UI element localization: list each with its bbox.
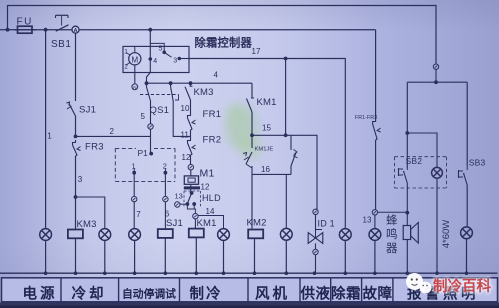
svg-text:4: 4 bbox=[214, 71, 219, 80]
node lighting split bbox=[434, 80, 438, 84]
pressure controller P1 box bbox=[115, 148, 175, 181]
svg-text:SB2: SB2 bbox=[406, 156, 423, 166]
wire cooling branch bbox=[76, 197, 105, 229]
contact KM3 aux bbox=[190, 83, 192, 86]
lamp SB2 HL8 bbox=[432, 167, 443, 178]
meter A bbox=[72, 26, 79, 33]
wire 2 horizontal bbox=[76, 135, 151, 137]
wire top frame bbox=[8, 6, 437, 64]
contact SJ1 time relay bbox=[67, 102, 97, 116]
svg-text:FR2: FR2 bbox=[203, 135, 222, 146]
svg-text:QS1: QS1 bbox=[150, 105, 170, 116]
bottom strip bbox=[0, 303, 499, 308]
controller motor M bbox=[129, 53, 141, 65]
svg-text:12: 12 bbox=[201, 183, 210, 192]
contact FR2 bbox=[188, 138, 191, 143]
svg-text:除霜: 除霜 bbox=[331, 285, 361, 303]
wire 4 bbox=[147, 82, 253, 84]
svg-text:除霜控制器: 除霜控制器 bbox=[195, 36, 253, 50]
svg-text:SJ1: SJ1 bbox=[79, 105, 96, 116]
wire refrig lamp branch bbox=[198, 216, 223, 229]
label row boxes bbox=[2, 278, 498, 302]
svg-text:KM3: KM3 bbox=[77, 219, 97, 230]
button SB3 bbox=[459, 158, 486, 228]
svg-text:SB1: SB1 bbox=[51, 39, 71, 50]
wire SB2 column bbox=[406, 82, 408, 168]
node 17 drop bbox=[284, 57, 288, 61]
contact KM1 bbox=[251, 95, 253, 98]
wire KM1 column bbox=[251, 83, 253, 95]
svg-text:M: M bbox=[131, 55, 138, 64]
node controller drop bbox=[148, 28, 152, 32]
svg-text:5: 5 bbox=[141, 112, 146, 121]
contact defrost thermostat bbox=[291, 135, 298, 174]
wire 17 bbox=[189, 59, 345, 229]
watermark logo bbox=[406, 273, 432, 294]
svg-text:供液: 供液 bbox=[300, 285, 331, 303]
svg-text:5: 5 bbox=[159, 46, 163, 53]
controller neutral N bbox=[134, 65, 136, 84]
wire P1-2 down bbox=[164, 173, 166, 197]
terminal ID1 top circle bbox=[313, 209, 318, 214]
svg-text:4: 4 bbox=[153, 58, 157, 65]
svg-text:13: 13 bbox=[175, 192, 183, 201]
wire line3 down bbox=[75, 156, 77, 229]
terminal 14 circle bbox=[193, 214, 198, 219]
node KM3 tap bbox=[189, 81, 193, 85]
svg-text:KM2: KM2 bbox=[247, 218, 267, 229]
contact FR1 bbox=[188, 113, 191, 118]
svg-text:制冷百科: 制冷百科 bbox=[433, 277, 491, 295]
svg-text:ID 1: ID 1 bbox=[318, 219, 335, 229]
wire HLD merge bbox=[187, 204, 195, 214]
controller pin 5 bbox=[150, 43, 164, 52]
svg-text:FR3: FR3 bbox=[85, 142, 104, 153]
lamp fault HL7 bbox=[374, 215, 376, 229]
svg-text:FU: FU bbox=[17, 17, 33, 28]
contact HLD bbox=[175, 191, 222, 208]
svg-text:15: 15 bbox=[262, 124, 271, 133]
svg-text:KM1JE: KM1JE bbox=[255, 147, 274, 153]
switch QS1 pole1 bbox=[146, 83, 148, 87]
wire from meter down bbox=[75, 33, 77, 101]
wire line1 down bbox=[45, 30, 47, 229]
terminal 7 circle bbox=[132, 196, 137, 201]
switch SB1 bbox=[51, 15, 71, 50]
lamp power HL1 bbox=[40, 229, 52, 241]
terminal 6 circle bbox=[163, 196, 168, 201]
controller pin 4 bbox=[149, 57, 153, 61]
wire KM2 down bbox=[251, 174, 253, 228]
node line2 junction bbox=[74, 135, 78, 139]
svg-text:2: 2 bbox=[163, 162, 167, 171]
svg-text:P1: P1 bbox=[138, 148, 149, 158]
svg-text:自动停调试: 自动停调试 bbox=[122, 287, 176, 301]
terminal 13 circle bbox=[175, 202, 180, 207]
svg-text:SJ1: SJ1 bbox=[166, 218, 183, 229]
wire main bus L1 bbox=[0, 29, 376, 31]
svg-text:FR1: FR1 bbox=[203, 109, 222, 120]
terminal 13 fault circle bbox=[372, 210, 377, 215]
coil KM3 bbox=[68, 230, 83, 239]
svg-text:N: N bbox=[133, 85, 137, 91]
coil KM1 bbox=[194, 219, 196, 229]
svg-text:3: 3 bbox=[173, 58, 177, 65]
svg-text:M1: M1 bbox=[200, 168, 215, 180]
svg-text:电源: 电源 bbox=[23, 285, 58, 303]
fuse FU bbox=[18, 26, 33, 33]
svg-text:鸣: 鸣 bbox=[386, 227, 398, 241]
svg-text:器: 器 bbox=[386, 242, 398, 255]
node lamp branch bbox=[405, 131, 409, 135]
wire QS1 pole2 down bbox=[173, 101, 190, 136]
svg-text:2: 2 bbox=[124, 64, 128, 71]
svg-text:12: 12 bbox=[182, 153, 191, 162]
wire 16 bbox=[252, 173, 291, 175]
svg-text:1: 1 bbox=[47, 132, 52, 141]
device M1 bbox=[184, 176, 198, 184]
svg-text:1: 1 bbox=[132, 162, 136, 171]
lamp refrigeration HL3 bbox=[218, 229, 230, 241]
svg-text:17: 17 bbox=[252, 47, 261, 56]
wire controller feed bbox=[149, 30, 151, 59]
svg-text:3: 3 bbox=[78, 175, 83, 184]
lamp defrost HL6 bbox=[339, 229, 351, 241]
svg-text:冷却: 冷却 bbox=[72, 285, 107, 303]
svg-text:14: 14 bbox=[206, 207, 215, 216]
wire bottom bus bbox=[0, 272, 498, 274]
QS1 link dashes bbox=[140, 94, 179, 96]
wire fan lamp bbox=[285, 174, 287, 228]
terminal 5 circle bbox=[148, 124, 153, 129]
node SB1 junction bbox=[44, 28, 48, 32]
svg-text:风机: 风机 bbox=[255, 285, 290, 303]
buzzer HA bbox=[403, 213, 418, 243]
wire P1-1 down bbox=[133, 173, 135, 197]
valve ID1 bbox=[308, 230, 323, 244]
lamp auto-stop HL4 bbox=[129, 229, 141, 241]
svg-text:13: 13 bbox=[363, 216, 372, 225]
svg-text:FR1-FR3: FR1-FR3 bbox=[355, 115, 377, 121]
wire SB2 lamp branch bbox=[407, 133, 437, 167]
controller wiper bbox=[164, 52, 171, 57]
bottom bus nodes bbox=[44, 271, 48, 275]
svg-text:1: 1 bbox=[124, 49, 128, 56]
contact FR3 overload bbox=[73, 140, 76, 145]
svg-text:7: 7 bbox=[136, 210, 141, 219]
node QS1 pole2 bbox=[169, 81, 173, 85]
svg-text:KM3: KM3 bbox=[194, 87, 214, 98]
wire 15 bbox=[252, 135, 317, 209]
svg-text:11: 11 bbox=[181, 131, 190, 140]
green watermark smudge bbox=[225, 102, 262, 160]
button SB2 with lamp box bbox=[395, 156, 447, 213]
node frame corner bbox=[6, 28, 10, 32]
wire bus drop right bbox=[375, 30, 377, 119]
svg-text:KM1: KM1 bbox=[197, 218, 217, 229]
wire lighting header bbox=[407, 81, 467, 83]
wire QS1 pole1 down bbox=[150, 101, 152, 124]
svg-text:制冷: 制冷 bbox=[190, 285, 223, 303]
node cooling branch bbox=[74, 195, 78, 199]
terminal ID1 bottom circle bbox=[315, 243, 317, 249]
switch QS1 pole2 bbox=[170, 83, 172, 87]
lamp lighting HL9 bbox=[461, 227, 473, 239]
node wire15 bbox=[250, 133, 254, 137]
node QS1 pole1 bbox=[145, 81, 149, 85]
svg-text:蜂: 蜂 bbox=[386, 213, 398, 227]
wire 13 to buzzer bbox=[378, 211, 408, 213]
svg-text:4*60W: 4*60W bbox=[441, 220, 452, 249]
controller pin 3 bbox=[178, 57, 182, 61]
svg-text:HLD: HLD bbox=[202, 193, 221, 203]
wire SB3 column bbox=[466, 82, 468, 165]
defrost controller box U1 bbox=[123, 46, 189, 72]
lamp cooling HL2 bbox=[99, 229, 111, 241]
svg-text:KM1: KM1 bbox=[257, 97, 277, 108]
svg-text:故障: 故障 bbox=[363, 285, 393, 303]
svg-text:SB3: SB3 bbox=[469, 158, 486, 168]
svg-text:16: 16 bbox=[261, 165, 270, 174]
lamp fan HL5 bbox=[280, 228, 292, 240]
terminal 12 circle bbox=[188, 165, 193, 170]
svg-text:10: 10 bbox=[181, 104, 190, 113]
svg-text:2: 2 bbox=[110, 127, 115, 136]
contact KM1JE bbox=[243, 147, 273, 175]
terminal lighting circle bbox=[433, 64, 438, 69]
